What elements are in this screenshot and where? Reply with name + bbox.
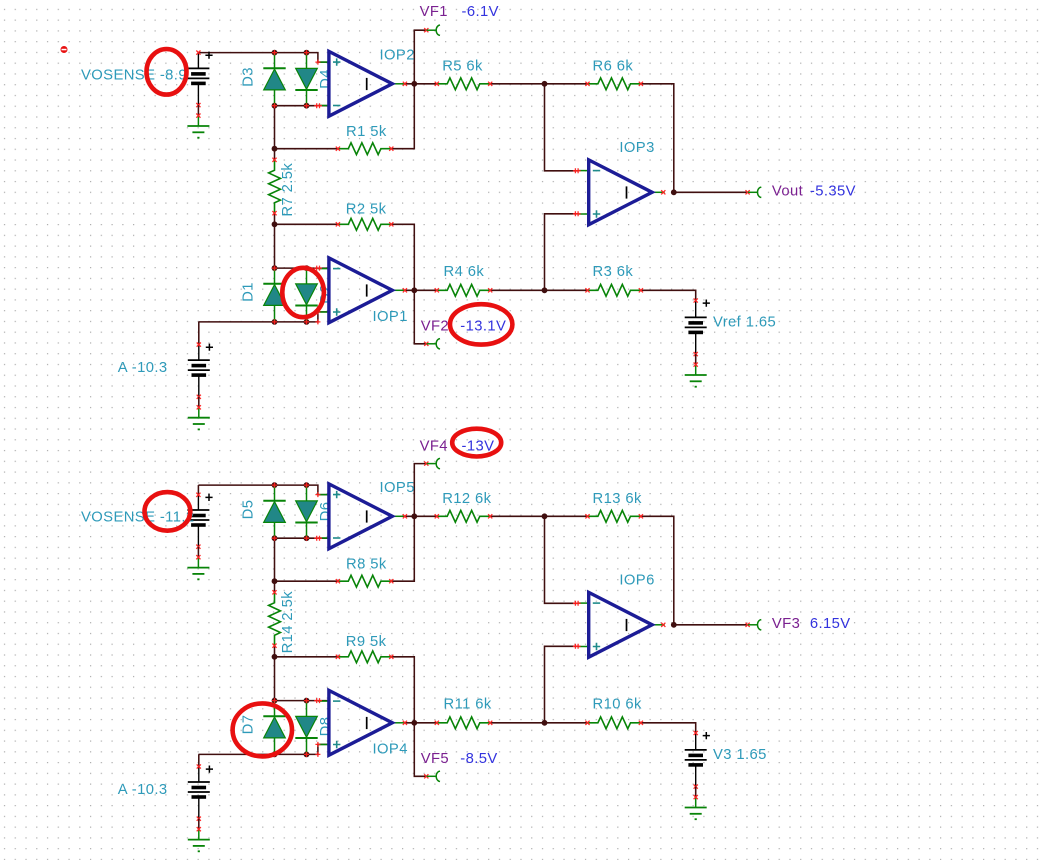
ground below Vref (695, 365, 697, 375)
pin mark IOP6 out (661, 623, 665, 627)
VF4 terminal (424, 462, 428, 466)
svg-text:R7 2.5k: R7 2.5k (280, 163, 296, 217)
svg-text:IOP4: IOP4 (373, 742, 408, 758)
wire: diode top rail to IOP1 - input (275, 267, 329, 269)
wire: battery to ground (695, 354, 697, 365)
pin marks IOP6 (573, 601, 578, 606)
wire: node to R2 left (275, 223, 338, 225)
junction IOP5 output (411, 513, 417, 519)
wire: R3 to Vref (641, 290, 696, 300)
wire: R4 to R3 (490, 289, 587, 291)
R13 6k resistor (588, 510, 641, 522)
svg-text:VF4: VF4 (420, 439, 448, 455)
pin marks IOP4 (314, 698, 319, 703)
svg-text:D1: D1 (241, 282, 257, 302)
pin marks IOP2 (315, 60, 320, 65)
svg-text:Vout: Vout (772, 184, 803, 200)
junction R-divider bottom (542, 720, 548, 726)
IOP6 op-amp (578, 602, 589, 604)
svg-text:R13 6k: R13 6k (593, 491, 642, 507)
wire: IOP2 output to R5 (405, 83, 437, 85)
wire: diode bottom rail to IOP5 - input (275, 537, 329, 539)
wire: battery to ground (197, 547, 199, 558)
R5 6k resistor (437, 78, 490, 90)
wire: node to IOP3 + input (545, 214, 578, 290)
red marker glyph top-left (61, 46, 68, 53)
wire: down to VF5 terminal (414, 723, 425, 777)
IOP3 op-amp (578, 170, 589, 172)
annotation ellipse around VOSENSE -11.2 value (145, 492, 191, 531)
R14 2.5k resistor (269, 592, 281, 645)
junction R8 node (272, 578, 278, 584)
svg-text:A -10.3: A -10.3 (118, 360, 168, 376)
wire: node to IOP6 + input (545, 646, 578, 723)
R3 6k resistor (588, 284, 641, 296)
svg-text:R9 5k: R9 5k (346, 634, 387, 650)
svg-text:R12 6k: R12 6k (442, 491, 491, 507)
wire: IOP6 output to VF3 terminal (674, 624, 747, 626)
svg-text:IOP5: IOP5 (380, 480, 415, 496)
svg-text:IOP3: IOP3 (619, 140, 654, 156)
R4 6k resistor (437, 284, 490, 296)
R7 2.5k resistor (269, 160, 281, 213)
ground below V3 (695, 797, 697, 807)
wire: down to VF2 terminal (414, 290, 425, 344)
R2 5k resistor (338, 218, 391, 230)
ground below VOSENSE (197, 557, 199, 567)
junction IOP6 output (671, 622, 677, 628)
wire: R2 feedback to IOP1 output (391, 224, 414, 290)
svg-text:VOSENSE -8.9: VOSENSE -8.9 (81, 68, 187, 84)
wire: rail to VOSENSE battery (197, 485, 199, 495)
svg-text:VOSENSE -11.2: VOSENSE -11.2 (81, 509, 194, 525)
wire: battery to ground (695, 787, 697, 798)
pin marks IOP5 (315, 492, 320, 497)
wire: node to R1 left (275, 148, 338, 150)
D3 diode (274, 53, 276, 69)
R1 5k resistor (338, 143, 391, 155)
svg-text:D8: D8 (318, 717, 334, 737)
svg-text:VF3: VF3 (772, 616, 800, 632)
pin mark IOP2 out (403, 82, 407, 86)
wire: battery to ground (198, 819, 200, 830)
wire: battery to ground (197, 105, 199, 116)
R9 5k resistor (338, 651, 391, 663)
svg-text:R2 5k: R2 5k (346, 202, 387, 218)
wire: R14 to lower rail (274, 646, 276, 701)
svg-text:A -10.3: A -10.3 (118, 782, 168, 798)
junction IOP1 output (411, 287, 417, 293)
junction R9 node (272, 654, 278, 660)
VOSENSE -11.2 voltage source (197, 495, 199, 510)
IOP4 op-amp (318, 700, 329, 702)
pin mark IOP4 out (403, 721, 407, 725)
pin mark IOP5 out (403, 514, 407, 518)
svg-text:Vref 1.65: Vref 1.65 (713, 315, 776, 331)
wire: R5 to R6 (490, 83, 587, 85)
wire: battery to ground (198, 397, 200, 408)
svg-text:D4: D4 (318, 69, 334, 89)
pin marks IOP3 (573, 168, 578, 173)
wire: R11 to R10 (490, 722, 587, 724)
R8 5k resistor (338, 575, 391, 587)
svg-text:VF1: VF1 (420, 4, 448, 20)
junction R2 node (272, 221, 278, 227)
junction IOP2 output (411, 81, 417, 87)
svg-text:D7: D7 (241, 715, 257, 735)
pin mark IOP3 out (661, 190, 665, 194)
svg-text:IOP1: IOP1 (373, 309, 408, 325)
wire: R6 down to IOP3 output (641, 84, 674, 193)
wire: rail to A battery (198, 322, 200, 345)
svg-text:VF2: VF2 (421, 319, 449, 335)
R10 6k resistor (588, 717, 641, 729)
svg-text:R3 6k: R3 6k (593, 264, 634, 280)
annotation ellipse around D7 (233, 703, 292, 756)
annotation ellipse around VF4 value (452, 429, 501, 457)
wire: node to R9 left (275, 656, 338, 658)
junction IOP4 output (411, 720, 417, 726)
wire: node to IOP3 - input (545, 84, 578, 171)
D5 diode (274, 485, 276, 501)
wire: R10 to V3 (641, 723, 696, 733)
D2 diode (306, 268, 308, 284)
wire: bottom rail to IOP4 + input (198, 744, 329, 754)
junction IOP3 output (671, 189, 677, 195)
svg-text:IOP6: IOP6 (619, 573, 654, 589)
D7 diode (274, 701, 276, 717)
wire: IOP4 output to R11 (405, 722, 437, 724)
IOP2 op-amp (318, 61, 329, 63)
junction R-divider top (542, 81, 548, 87)
svg-text:R11 6k: R11 6k (444, 696, 492, 712)
annotation ellipse around VOSENSE -8.9 value (147, 49, 187, 95)
D4 diode (306, 53, 308, 69)
junction R1 node (272, 146, 278, 152)
svg-text:-5.35V: -5.35V (810, 184, 856, 200)
IOP5 op-amp (318, 494, 329, 496)
VF1 terminal (424, 28, 428, 32)
Vref 1.65 voltage source (695, 301, 697, 318)
annotation ellipse around D2 (282, 268, 324, 317)
A -10.3 voltage source (198, 767, 200, 783)
D8 diode (306, 701, 308, 717)
Vout terminal (746, 190, 750, 194)
wire: R13 down to IOP6 output (641, 516, 674, 625)
junction dots diode rails (272, 50, 278, 56)
svg-text:D6: D6 (318, 502, 334, 522)
svg-text:IOP2: IOP2 (380, 47, 415, 63)
annotation ellipse around VF2 value (450, 304, 512, 344)
wire: rail down to R14 (274, 538, 276, 592)
wire: diode bottom rail to IOP2 - input (275, 105, 329, 107)
svg-text:-13.1V: -13.1V (460, 319, 506, 335)
ground below A (198, 829, 200, 839)
svg-text:6.15V: 6.15V (810, 616, 851, 632)
R11 6k resistor (437, 717, 490, 729)
wire: source rail to IOP5 + input (198, 485, 329, 495)
wire: IOP3 output to Vout terminal (674, 191, 747, 193)
VF2 terminal (424, 342, 428, 346)
svg-text:R14 2.5k: R14 2.5k (280, 591, 296, 654)
ground below A (198, 407, 200, 417)
wire: IOP1 output to R4 (405, 289, 437, 291)
wire: rail down to R7 (274, 106, 276, 160)
A -10.3 voltage source (198, 345, 200, 361)
wire: source rail to IOP2 + input (198, 53, 329, 63)
VF5 terminal (424, 774, 428, 778)
wire: diode top rail to IOP4 - input (275, 700, 329, 702)
junction R-divider top (542, 513, 548, 519)
D1 diode (274, 268, 276, 284)
wire: node to R8 left (275, 580, 338, 582)
wire: R7 to lower rail (274, 213, 276, 268)
svg-text:R10 6k: R10 6k (593, 696, 642, 712)
svg-text:D3: D3 (241, 67, 257, 87)
wire: bottom rail to IOP1 + input (198, 312, 329, 322)
svg-text:V3 1.65: V3 1.65 (713, 747, 767, 763)
wire: IOP5 output to R12 (405, 515, 437, 517)
D6 diode (306, 485, 308, 501)
svg-text:R4 6k: R4 6k (444, 264, 485, 280)
ground below VOSENSE (197, 116, 199, 126)
wire: rail to A battery (198, 754, 200, 766)
wire: node to IOP6 - input (545, 516, 578, 603)
R6 6k resistor (588, 78, 641, 90)
svg-text:R6 6k: R6 6k (593, 59, 634, 75)
svg-text:R5 6k: R5 6k (442, 59, 483, 75)
svg-text:R1 5k: R1 5k (346, 124, 387, 140)
V3 1.65 voltage source (695, 733, 697, 750)
junction dots diode rails (272, 482, 278, 488)
IOP1 op-amp (318, 268, 329, 270)
VOSENSE -8.9 voltage source (197, 53, 199, 69)
wire: R8 right up to VF4 terminal (391, 464, 425, 582)
R12 6k resistor (437, 510, 490, 522)
svg-text:-8.5V: -8.5V (460, 751, 497, 767)
svg-text:VF5: VF5 (421, 751, 449, 767)
wire: R1 right up to VF1 terminal (391, 30, 425, 149)
pin marks IOP1 (314, 266, 319, 271)
wire: R12 to R13 (490, 515, 587, 517)
svg-text:D5: D5 (241, 500, 257, 520)
svg-text:R8 5k: R8 5k (346, 557, 387, 573)
wire: R9 feedback to IOP4 output (391, 657, 414, 723)
junction R-divider bottom (542, 287, 548, 293)
svg-text:-6.1V: -6.1V (462, 4, 499, 20)
VF3 terminal (746, 623, 750, 627)
pin mark IOP1 out (403, 288, 407, 292)
